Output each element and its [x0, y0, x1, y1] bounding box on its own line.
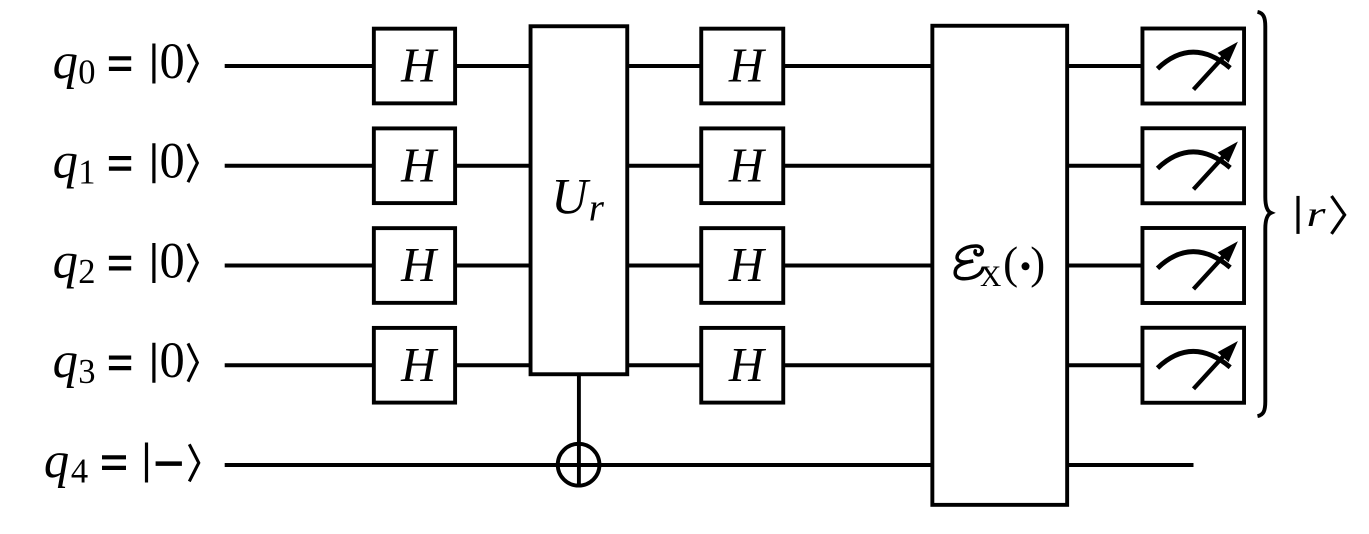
brace for measured register [1258, 12, 1272, 416]
svg-text:q: q [53, 332, 78, 388]
wire q4 [225, 463, 1194, 467]
CNOT target (xor circle) on q4 [558, 444, 600, 486]
svg-text:H: H [400, 339, 439, 392]
gate H column2 q3 [701, 328, 783, 403]
label q3 = |0> [53, 332, 198, 391]
gate H column1 q2 [374, 228, 455, 303]
svg-text:4: 4 [71, 453, 88, 491]
svg-text:q: q [53, 133, 78, 189]
svg-text:H: H [728, 239, 767, 292]
svg-text:H: H [728, 40, 767, 93]
gate H column2 q1 [701, 128, 783, 203]
svg-text:0: 0 [160, 232, 185, 288]
label q2 = |0> [53, 232, 198, 291]
svg-text:0: 0 [160, 33, 185, 89]
svg-text:0: 0 [160, 133, 185, 189]
svg-text:1: 1 [78, 153, 95, 191]
svg-text:0: 0 [160, 332, 185, 388]
gate H column1 q1 [374, 128, 455, 203]
gate H column1 q0 [374, 29, 455, 104]
gate H column2 q0 [701, 29, 783, 104]
svg-text:q: q [53, 33, 78, 89]
svg-text:H: H [728, 139, 767, 192]
label q1 = |0> [53, 133, 198, 192]
svg-text:H: H [400, 239, 439, 292]
label q0 = |0> [53, 33, 198, 92]
noise channel box E_X(.) [932, 26, 1067, 505]
svg-text:U: U [551, 169, 591, 225]
svg-text:H: H [400, 40, 439, 93]
wire q1 [225, 164, 1150, 168]
measurement meter q2 [1142, 228, 1244, 303]
node |r> output label [1298, 194, 1345, 234]
measurement meter q1 [1142, 128, 1244, 203]
wire q3 [225, 363, 1150, 367]
label q4 = |-> [44, 432, 199, 491]
control wire from Ur to q4 target [577, 372, 581, 486]
svg-text:(: ( [1003, 238, 1018, 288]
measurement meter q3 [1142, 328, 1244, 403]
measurement meter q0 [1142, 29, 1244, 104]
svg-text:H: H [728, 339, 767, 392]
wire q0 [225, 64, 1150, 68]
gate H column1 q3 [374, 328, 455, 403]
svg-text:r: r [589, 186, 605, 229]
gate Ur multiqubit box [531, 26, 628, 374]
wire q2 [225, 264, 1150, 268]
svg-text:q: q [44, 432, 69, 488]
svg-text:X: X [980, 261, 1001, 293]
svg-text:q: q [53, 232, 78, 288]
svg-text:2: 2 [78, 253, 95, 291]
svg-text:0: 0 [78, 54, 95, 92]
svg-text:): ) [1030, 238, 1045, 288]
svg-text:H: H [400, 139, 439, 192]
svg-text:3: 3 [78, 353, 95, 391]
svg-text:r: r [1307, 194, 1327, 234]
gate H column2 q2 [701, 228, 783, 303]
